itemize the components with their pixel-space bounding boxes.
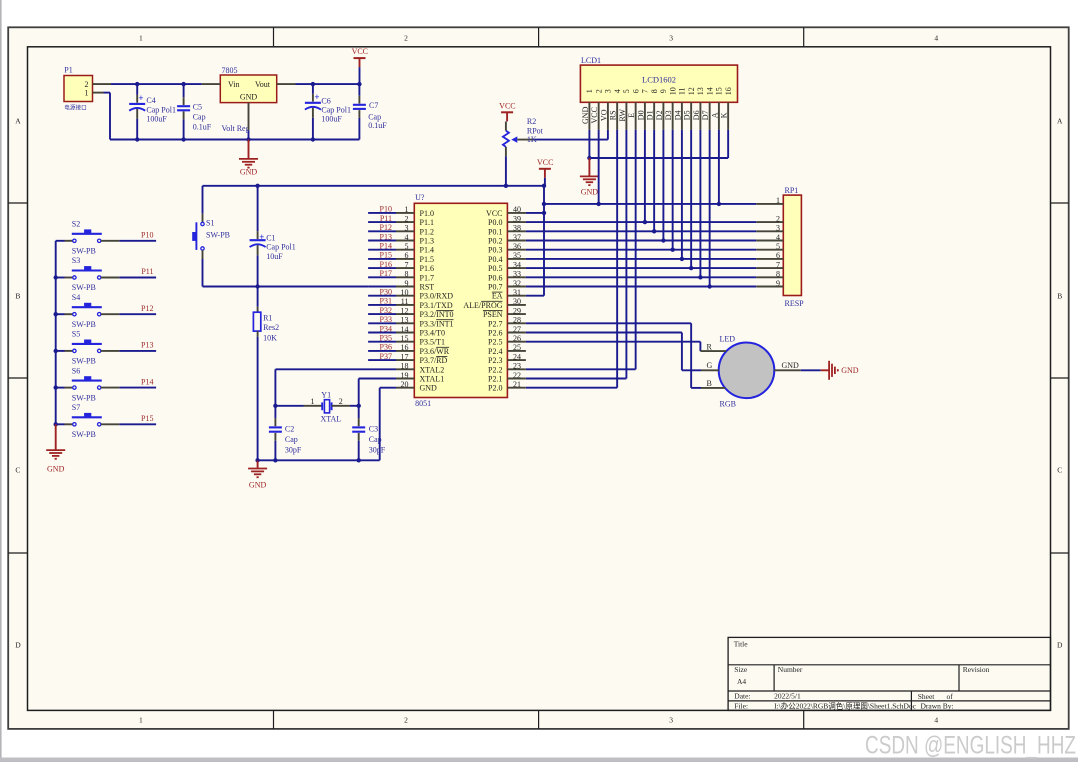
svg-text:+: + (314, 92, 319, 102)
crystal Y1 XTAL (275, 391, 358, 424)
svg-text:P10: P10 (141, 231, 153, 240)
net labels P30-P37 (380, 288, 392, 361)
svg-text:VCC: VCC (590, 107, 599, 123)
svg-text:3: 3 (776, 224, 780, 233)
svg-text:7: 7 (405, 260, 409, 269)
svg-text:K: K (720, 112, 729, 118)
wire P2.7 to LED B (526, 323, 701, 388)
svg-text:P2.2: P2.2 (488, 365, 502, 374)
svg-text:1: 1 (405, 205, 409, 214)
wire P0.5 bus row (526, 267, 756, 269)
wire S2 to net P10 (119, 240, 156, 242)
junction LCD VCC (596, 202, 600, 206)
wire LCD A pin15 to rail (718, 130, 720, 204)
svg-text:C1: C1 (266, 234, 275, 243)
svg-text:P2.7: P2.7 (488, 319, 502, 328)
wire MCU pin40 VCC (526, 212, 544, 214)
svg-text:Vout: Vout (255, 80, 271, 89)
svg-text:11: 11 (678, 87, 687, 95)
svg-text:S5: S5 (72, 330, 80, 339)
svg-text:P13: P13 (380, 232, 392, 241)
svg-text:Cap: Cap (368, 112, 381, 121)
svg-text:VCC: VCC (537, 158, 553, 167)
junction R1 ground node (255, 458, 259, 462)
svg-text:2: 2 (339, 397, 343, 406)
junction D0/P0.0 (643, 220, 647, 224)
svg-text:9: 9 (659, 89, 668, 93)
svg-text:File:: File: (734, 702, 748, 711)
wire S7 to net P15 (119, 423, 156, 425)
wire VCC rail of reset circuit (203, 185, 545, 187)
svg-text:36: 36 (513, 242, 521, 251)
svg-text:P1.1: P1.1 (420, 218, 434, 227)
junction C5 top (181, 82, 185, 86)
svg-text:P3.0/RXD: P3.0/RXD (420, 292, 454, 301)
capacitor C5 0.1uF (177, 84, 212, 139)
switch S6 SW-PB (56, 366, 120, 402)
svg-text:P0.7: P0.7 (488, 283, 502, 292)
svg-text:40: 40 (513, 205, 521, 214)
svg-text:P35: P35 (380, 334, 392, 343)
svg-text:8: 8 (650, 89, 659, 93)
svg-text:15: 15 (401, 334, 409, 343)
microcontroller U? 8051 (396, 193, 526, 408)
svg-text:P15: P15 (141, 414, 153, 423)
svg-text:D1: D1 (646, 110, 655, 120)
svg-text:XTAL1: XTAL1 (420, 375, 445, 384)
junction VCC rail end (542, 184, 546, 188)
svg-text:13: 13 (696, 87, 705, 95)
LCD display LCD1 LCD1602 (580, 56, 737, 130)
svg-text:SW-PB: SW-PB (72, 283, 96, 292)
svg-text:RS: RS (609, 110, 618, 120)
svg-text:C: C (1057, 466, 1062, 475)
switch S4 SW-PB (56, 293, 120, 329)
junction VCC / LCD supply rail (542, 202, 546, 206)
svg-text:Number: Number (778, 665, 803, 674)
svg-text:S1: S1 (206, 218, 214, 227)
svg-text:XTAL2: XTAL2 (420, 365, 445, 374)
svg-text:P30: P30 (380, 288, 392, 297)
svg-text:Size: Size (734, 665, 748, 674)
switch S2 SW-PB (56, 220, 120, 256)
svg-text:P10: P10 (380, 205, 392, 214)
svg-text:P2.4: P2.4 (488, 347, 502, 356)
svg-text:P1: P1 (64, 66, 72, 75)
net label P14 (141, 377, 153, 386)
svg-text:E: E (627, 113, 636, 118)
svg-text:VO: VO (600, 109, 609, 121)
svg-text:24: 24 (513, 352, 521, 361)
svg-text:D6: D6 (692, 110, 701, 120)
svg-text:P16: P16 (380, 260, 392, 269)
junction LCD A (717, 202, 721, 206)
net label P13 (141, 341, 153, 350)
svg-text:D4: D4 (674, 110, 683, 120)
svg-text:Cap Pol1: Cap Pol1 (146, 106, 176, 115)
svg-text:SW-PB: SW-PB (72, 357, 96, 366)
wire LCD GND pin1 down (588, 130, 590, 158)
wire LCD D2 vertical (662, 130, 664, 241)
junction pin40 VCC (542, 211, 546, 215)
svg-text:GND: GND (249, 480, 267, 489)
svg-text:R2: R2 (527, 117, 536, 126)
svg-text:GND: GND (420, 384, 438, 393)
wire VCC rail to LCD and RP1 (544, 203, 756, 205)
svg-text:12: 12 (401, 306, 409, 315)
svg-text:RW: RW (618, 109, 627, 122)
ground GND below S7 (46, 424, 65, 473)
potentiometer R2 RPot 1K (503, 117, 544, 156)
svg-text:GND: GND (240, 93, 258, 102)
svg-text:SW-PB: SW-PB (72, 247, 96, 256)
svg-text:Date:: Date: (734, 692, 750, 701)
svg-text:A: A (1057, 117, 1063, 126)
wire crystal ground rail (258, 459, 380, 461)
svg-text:Revision: Revision (963, 665, 990, 674)
svg-text:C: C (15, 466, 20, 475)
svg-text:GND: GND (581, 187, 599, 196)
svg-text:GND: GND (581, 106, 590, 124)
svg-text:GND: GND (47, 465, 65, 474)
svg-text:RP1: RP1 (785, 186, 799, 195)
wire switch ground bus (55, 241, 57, 424)
svg-text:100uF: 100uF (146, 115, 167, 124)
svg-text:B: B (707, 379, 712, 388)
svg-text:22: 22 (513, 371, 521, 380)
svg-text:P2.3: P2.3 (488, 356, 502, 365)
svg-text:P3.5/T1: P3.5/T1 (420, 338, 446, 347)
svg-text:SW-PB: SW-PB (72, 320, 96, 329)
connector P1 电源接口 (64, 66, 111, 112)
svg-text:P0.0: P0.0 (488, 218, 502, 227)
svg-text:R: R (707, 343, 713, 352)
svg-text:30pF: 30pF (369, 446, 386, 455)
svg-text:1: 1 (139, 33, 143, 42)
wire 7805 Vout rail (296, 83, 360, 85)
svg-text:P15: P15 (380, 251, 392, 260)
svg-text:GND: GND (841, 366, 859, 375)
wire LCD VCC pin2 to rail (598, 130, 600, 204)
svg-text:D2: D2 (655, 110, 664, 120)
wire LED GND (801, 369, 821, 371)
net label P10 (141, 231, 153, 240)
svg-text:XTAL: XTAL (321, 414, 342, 423)
svg-text:37: 37 (513, 233, 521, 242)
svg-text:P32: P32 (380, 306, 392, 315)
svg-text:P1.2: P1.2 (420, 227, 434, 236)
wire S4 to net P12 (119, 313, 156, 315)
svg-text:9: 9 (776, 279, 780, 288)
title block (728, 637, 1050, 710)
svg-text:S2: S2 (72, 220, 80, 229)
svg-text:SW-PB: SW-PB (72, 430, 96, 439)
svg-text:D7: D7 (701, 110, 710, 120)
svg-text:1: 1 (776, 196, 780, 205)
svg-text:S7: S7 (72, 403, 80, 412)
svg-text:SW-PB: SW-PB (206, 231, 230, 240)
svg-text:4: 4 (934, 33, 938, 42)
capacitor C3 30pF (352, 406, 386, 461)
svg-text:11: 11 (401, 297, 409, 306)
svg-text:19: 19 (401, 371, 409, 380)
wire S1 bottom to RST (203, 259, 369, 287)
wire S3 to net P11 (119, 277, 156, 279)
wire P1 pin2 to 7805 Vin (VIN rail) (111, 83, 202, 85)
svg-text:S6: S6 (72, 366, 80, 375)
wires P1.0-P1.7 (368, 213, 396, 277)
wire R1 bottom to ground node (257, 337, 259, 461)
svg-text:8: 8 (776, 270, 780, 279)
svg-text:Title: Title (734, 639, 749, 648)
svg-text:16: 16 (724, 87, 733, 95)
svg-text:P1.3: P1.3 (420, 237, 434, 246)
svg-text:2022/5/1: 2022/5/1 (774, 692, 801, 701)
svg-text:3: 3 (405, 224, 409, 233)
svg-text:2: 2 (404, 33, 408, 42)
svg-text:28: 28 (513, 316, 521, 325)
svg-text:RST: RST (420, 283, 435, 292)
svg-text:30: 30 (513, 297, 521, 306)
junction C5 bottom (181, 137, 185, 141)
wire LCD D0 vertical (644, 130, 646, 222)
svg-text:29: 29 (513, 306, 521, 315)
junction Y1 pin1 / C2 (273, 404, 277, 408)
wire LCD D5 vertical (690, 130, 692, 268)
wire RST row (368, 286, 396, 288)
svg-text:A: A (15, 117, 21, 126)
svg-text:2: 2 (594, 89, 603, 93)
svg-text:P3.3/INT1: P3.3/INT1 (420, 319, 454, 328)
svg-text:P34: P34 (380, 324, 392, 333)
svg-text:P1.7: P1.7 (420, 273, 434, 282)
wire P0.7 bus row (526, 286, 756, 288)
svg-text:C5: C5 (193, 102, 202, 111)
svg-text:P12: P12 (141, 304, 153, 313)
svg-text:Cap Pol1: Cap Pol1 (266, 243, 296, 252)
wire VCC vertical to pin40 and EA (543, 186, 545, 296)
svg-text:VCC: VCC (486, 209, 502, 218)
svg-text:2: 2 (405, 214, 409, 223)
switch S1 SW-PB (192, 186, 230, 259)
svg-text:31: 31 (513, 288, 521, 297)
svg-text:C4: C4 (146, 96, 155, 105)
svg-text:7: 7 (776, 260, 780, 269)
svg-text:D: D (15, 641, 21, 650)
net label P12 (141, 304, 153, 313)
svg-text:1: 1 (85, 89, 89, 98)
svg-text:C7: C7 (369, 101, 378, 110)
svg-text:C2: C2 (285, 425, 294, 434)
svg-text:5: 5 (405, 242, 409, 251)
svg-text:GND: GND (240, 168, 258, 177)
power VCC at regulator output (352, 47, 368, 84)
svg-text:Cap: Cap (193, 113, 206, 122)
svg-text:A4: A4 (737, 677, 746, 686)
svg-text:25: 25 (513, 343, 521, 352)
junction VCC / C7 (357, 82, 361, 86)
svg-text:7: 7 (641, 89, 650, 93)
wire P2.6 to LED G (526, 333, 701, 371)
svg-text:Sheet: Sheet (918, 692, 936, 701)
svg-text:35: 35 (513, 251, 521, 260)
junction bus at S7 (54, 422, 58, 426)
svg-text:P37: P37 (380, 352, 392, 361)
svg-text:P0.3: P0.3 (488, 246, 502, 255)
junction C6 top (311, 82, 315, 86)
svg-text:Volt Reg: Volt Reg (222, 124, 250, 133)
svg-text:P3.7/RD: P3.7/RD (420, 356, 448, 365)
svg-text:33: 33 (513, 270, 521, 279)
wire XTAL2 row (275, 369, 396, 406)
svg-text:0.1uF: 0.1uF (193, 122, 212, 131)
capacitor C4 100uF (129, 84, 176, 139)
svg-text:P31: P31 (380, 297, 392, 306)
svg-text:20: 20 (401, 380, 409, 389)
junction C1 top (255, 184, 259, 188)
svg-text:3: 3 (604, 89, 613, 93)
wire EA row (526, 295, 544, 297)
svg-text:B: B (1057, 292, 1062, 301)
wire LCD RW to P2.1 (526, 130, 626, 379)
svg-text:EA: EA (492, 292, 503, 301)
svg-text:P12: P12 (380, 223, 392, 232)
svg-text:27: 27 (513, 325, 521, 334)
svg-text:14: 14 (401, 325, 409, 334)
svg-text:Y1: Y1 (321, 391, 331, 400)
svg-text:17: 17 (401, 352, 409, 361)
svg-text:4: 4 (776, 233, 780, 242)
wires P3.0-P3.7 (368, 296, 396, 360)
svg-text:10: 10 (401, 288, 409, 297)
wire S5 to net P13 (119, 350, 156, 352)
svg-text:RPot: RPot (527, 126, 544, 135)
svg-text:P11: P11 (141, 267, 153, 276)
svg-text:10K: 10K (263, 333, 277, 342)
svg-text:26: 26 (513, 334, 521, 343)
wire 7805 GND pin to ground rail (248, 130, 250, 139)
capacitor C7 0.1uF (353, 84, 387, 139)
svg-text:G: G (707, 361, 713, 370)
junction 7805 GND (246, 137, 250, 141)
svg-text:13: 13 (401, 316, 409, 325)
power VCC above R2 (499, 101, 515, 121)
junction C4 bottom (135, 137, 139, 141)
svg-text:RGB: RGB (720, 400, 736, 409)
net label P11 (141, 267, 153, 276)
svg-text:8: 8 (405, 270, 409, 279)
wire LCD backlight K to GND (589, 130, 728, 158)
svg-text:23: 23 (513, 362, 521, 371)
ground GND below R1 (248, 460, 267, 489)
wire MCU GND pin20 (380, 388, 396, 461)
svg-text:R1: R1 (263, 314, 272, 323)
svg-text:VCC: VCC (499, 101, 515, 110)
svg-text:P33: P33 (380, 315, 392, 324)
svg-text:D5: D5 (683, 110, 692, 120)
svg-text:Vin: Vin (228, 80, 240, 89)
svg-text:1: 1 (139, 716, 143, 725)
svg-text:21: 21 (513, 380, 521, 389)
svg-text:39: 39 (513, 214, 521, 223)
junction D3/P0.3 (670, 248, 674, 252)
svg-text:4: 4 (934, 716, 938, 725)
junction C2 bottom (273, 458, 277, 462)
svg-text:SW-PB: SW-PB (72, 393, 96, 402)
svg-text:P2.1: P2.1 (488, 375, 502, 384)
capacitor C2 30pF (269, 406, 302, 461)
svg-text:6: 6 (631, 89, 640, 93)
svg-text:LCD1: LCD1 (581, 56, 601, 65)
svg-text:A: A (711, 112, 720, 118)
ground GND below 7805 (239, 140, 258, 177)
svg-text:VCC: VCC (352, 47, 368, 56)
svg-text:15: 15 (715, 87, 724, 95)
wire ground rail (110, 139, 359, 141)
svg-text:P0.2: P0.2 (488, 237, 502, 246)
svg-text:4: 4 (405, 233, 409, 242)
svg-text:+: + (138, 93, 143, 103)
wire P0.0 bus row (526, 221, 756, 223)
svg-text:P14: P14 (380, 242, 392, 251)
wire P0.1 bus row (526, 230, 756, 232)
svg-text:P2.0: P2.0 (488, 384, 502, 393)
svg-text:S3: S3 (72, 256, 80, 265)
wire LCD D1 vertical (653, 130, 655, 232)
wire LCD E to P2.2 (526, 130, 636, 369)
svg-text:P14: P14 (141, 377, 153, 386)
svg-text:3: 3 (669, 33, 673, 42)
svg-text:Cap Pol1: Cap Pol1 (321, 105, 351, 114)
svg-text:ALE/PROG: ALE/PROG (463, 301, 502, 310)
svg-text:电源接口: 电源接口 (64, 103, 86, 111)
svg-text:4: 4 (613, 89, 622, 93)
switch S3 SW-PB (56, 256, 120, 292)
junction bus at S5 (54, 349, 58, 353)
svg-text:P3.6/WR: P3.6/WR (420, 347, 450, 356)
svg-text:CSDN @ENGLISH_HHZ: CSDN @ENGLISH_HHZ (865, 732, 1076, 760)
svg-text:P36: P36 (380, 343, 392, 352)
junction D7/P0.7 (707, 284, 711, 288)
switch S7 SW-PB (56, 403, 120, 439)
svg-text:P0.5: P0.5 (488, 264, 502, 273)
switch S5 SW-PB (56, 330, 120, 366)
svg-text:D0: D0 (637, 110, 646, 120)
svg-text:1: 1 (585, 89, 594, 93)
svg-text:Drawn By:: Drawn By: (921, 702, 954, 711)
wire P1 pin1 down to ground rail (104, 93, 111, 140)
resistor pack RP1 RESP (756, 186, 804, 308)
svg-text:10: 10 (668, 87, 677, 95)
wire P0.4 bus row (526, 258, 756, 260)
svg-text:D3: D3 (664, 110, 673, 120)
capacitor C1 10uF (250, 186, 296, 287)
voltage regulator 7805 Volt Reg (202, 66, 296, 133)
svg-text:9: 9 (405, 279, 409, 288)
svg-text:LCD1602: LCD1602 (642, 75, 676, 85)
svg-text:P0.4: P0.4 (488, 255, 502, 264)
svg-text:C6: C6 (321, 96, 330, 105)
svg-text:Cap: Cap (285, 435, 298, 444)
svg-text:P1.6: P1.6 (420, 264, 434, 273)
ground GND right of LED (821, 361, 859, 380)
junction C4 top (135, 82, 139, 86)
svg-text:16: 16 (401, 343, 409, 352)
capacitor C6 100uF (305, 84, 351, 139)
wire P0.6 bus row (526, 276, 756, 278)
junction R2 bottom (504, 184, 508, 188)
svg-text:PSEN: PSEN (483, 310, 503, 319)
